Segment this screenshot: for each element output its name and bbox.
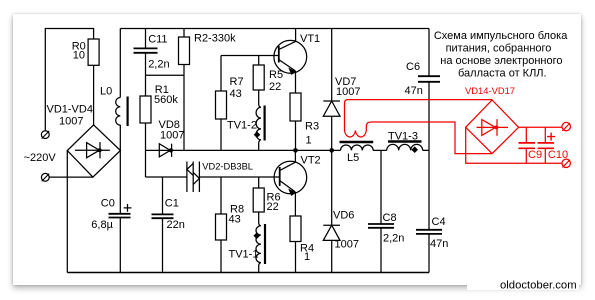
bridge rectifier VD14-VD17 [466,100,519,154]
svg-text:22: 22 [267,201,279,213]
svg-text:22: 22 [269,81,281,93]
plus sign C0 [124,204,132,212]
svg-text:47n: 47n [405,85,423,97]
transformer winding TV1-1 [253,212,265,273]
resistor R1 [140,75,151,177]
transformer winding TV1-2 [254,93,265,151]
svg-text:балласта от КЛЛ.: балласта от КЛЛ. [458,68,547,80]
resistor R7 [216,56,227,151]
svg-text:C1: C1 [165,198,179,210]
capacitor C10 [538,127,555,163]
wire diac to VT2 base [199,176,279,178]
svg-text:1007: 1007 [336,86,360,98]
svg-text:TV1-3: TV1-3 [388,130,418,142]
wire midpoint row [296,149,430,151]
svg-text:C9: C9 [528,149,542,161]
resistor R6 [253,177,264,212]
wire R0 to bridge top vertex [93,65,95,125]
winding L5-red secondary [345,100,371,137]
diode VD7 [323,101,340,116]
svg-text:VD6: VD6 [333,209,354,221]
wire R1 to diac [146,176,187,178]
wire terminal X2 to bridge bottom vertex [49,176,93,178]
svg-text:C11: C11 [148,33,167,45]
wire VT1 base row [221,55,279,57]
terminal output minus [562,159,570,167]
svg-text:R5: R5 [269,69,283,81]
svg-text:47n: 47n [430,238,448,250]
svg-text:22n: 22n [167,219,185,231]
svg-text:VD1-VD4: VD1-VD4 [47,103,93,115]
svg-text:C4: C4 [432,216,446,228]
svg-text:1007: 1007 [160,130,184,142]
wire R2 junction down to VD8 row [183,75,185,150]
wire bridge left vertex to minus rail [466,127,562,163]
svg-text:43: 43 [230,88,242,100]
svg-text:VD14-VD17: VD14-VD17 [465,85,515,96]
svg-text:560k: 560k [154,94,178,106]
resistor R2 [179,29,190,76]
svg-text:1007: 1007 [335,239,359,251]
svg-text:R2-330k: R2-330k [194,32,236,44]
diac VD2-DB3BL [187,162,200,193]
red modification wires [345,100,571,168]
resistor R4 [290,216,301,273]
svg-text:на основе электронного: на основе электронного [440,55,562,67]
capacitor C4 [416,150,442,272]
title text block [434,30,568,79]
wire main vertical L0/C0 column [119,29,121,273]
plus sign output [547,133,555,141]
transistor VT1 [274,40,307,75]
svg-text:R7: R7 [230,76,244,88]
resistor R8 [216,177,227,273]
svg-text:1: 1 [304,251,310,263]
node midpoint VD6/VD7 [329,148,334,153]
svg-text:TV1-2: TV1-2 [227,120,257,132]
wire junction C11-R2 [146,74,185,76]
capacitor C6 [418,29,440,151]
bottom rail [67,272,429,274]
svg-text:TV1-1: TV1-1 [229,248,259,260]
svg-text:2,2n: 2,2n [383,232,404,244]
svg-text:1007: 1007 [59,115,83,127]
capacitor C1 [152,177,174,273]
svg-text:VT1: VT1 [300,33,320,45]
transformer winding TV1-3 [387,142,423,154]
wire VT1 emitter to R3 [295,71,297,93]
svg-text:oldoctober.com: oldoctober.com [500,279,577,291]
capacitor C0 [109,214,131,218]
svg-text:L0: L0 [100,85,112,97]
svg-text:6,8µ: 6,8µ [91,219,113,231]
svg-text:2,2n: 2,2n [148,58,169,70]
svg-text:L5: L5 [347,152,359,164]
wire VT1 collector [295,29,297,42]
wire VD7/VD6 vertical [331,29,333,273]
diode VD6 [323,225,340,240]
diode VD8 [159,144,173,157]
svg-text:Схема импульсного блока: Схема импульсного блока [434,30,568,42]
svg-text:VD2-DB3BL: VD2-DB3BL [202,161,253,171]
terminal X1 ~220V upper [41,131,49,139]
wire bridge left vertex down to bottom rail [66,151,68,273]
wire red lower to bridge bottom [371,122,492,154]
svg-text:C0: C0 [101,198,115,210]
svg-text:питания, собранного: питания, собранного [446,43,552,55]
resistor R5 [253,56,264,93]
wire VT2 collector [294,150,296,162]
capacitor C9 [519,127,536,163]
svg-text:VT2: VT2 [301,155,321,167]
wire red upper to bridge top [348,99,492,101]
svg-text:1: 1 [306,135,312,147]
inductor L5 [340,142,374,150]
resistor R3 [290,93,301,150]
wire VD8 row [146,149,296,151]
terminal output plus [562,122,570,130]
bridge rectifier VD1-VD4 [67,125,120,177]
svg-text:C8: C8 [383,212,397,224]
svg-text:R3: R3 [305,121,319,133]
inductor L0 [116,97,128,127]
svg-text:10: 10 [73,50,85,62]
svg-text:43: 43 [229,213,241,225]
transistor VT2 [274,161,307,196]
wire VT2 emitter to R4 [294,192,296,216]
top rail [120,28,429,30]
wire top-left box [45,29,93,131]
capacitor C11 [134,29,158,76]
capacitor C8 [368,150,394,272]
wire plus rail [519,126,562,128]
terminal X2 ~220V lower [41,173,49,181]
node VT2 collector junction [293,148,298,153]
svg-text:~220V: ~220V [24,152,57,164]
svg-text:C6: C6 [406,61,420,73]
resistor R0 [88,39,99,65]
svg-text:C10: C10 [548,149,568,161]
